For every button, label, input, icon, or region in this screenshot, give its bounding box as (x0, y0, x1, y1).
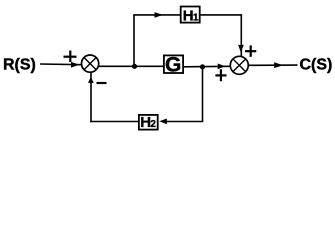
svg-text:1: 1 (193, 12, 199, 23)
svg-text:C(S): C(S) (300, 57, 333, 74)
svg-text:2: 2 (150, 119, 156, 130)
svg-text:R(S): R(S) (3, 56, 36, 73)
svg-text:G: G (165, 54, 181, 77)
